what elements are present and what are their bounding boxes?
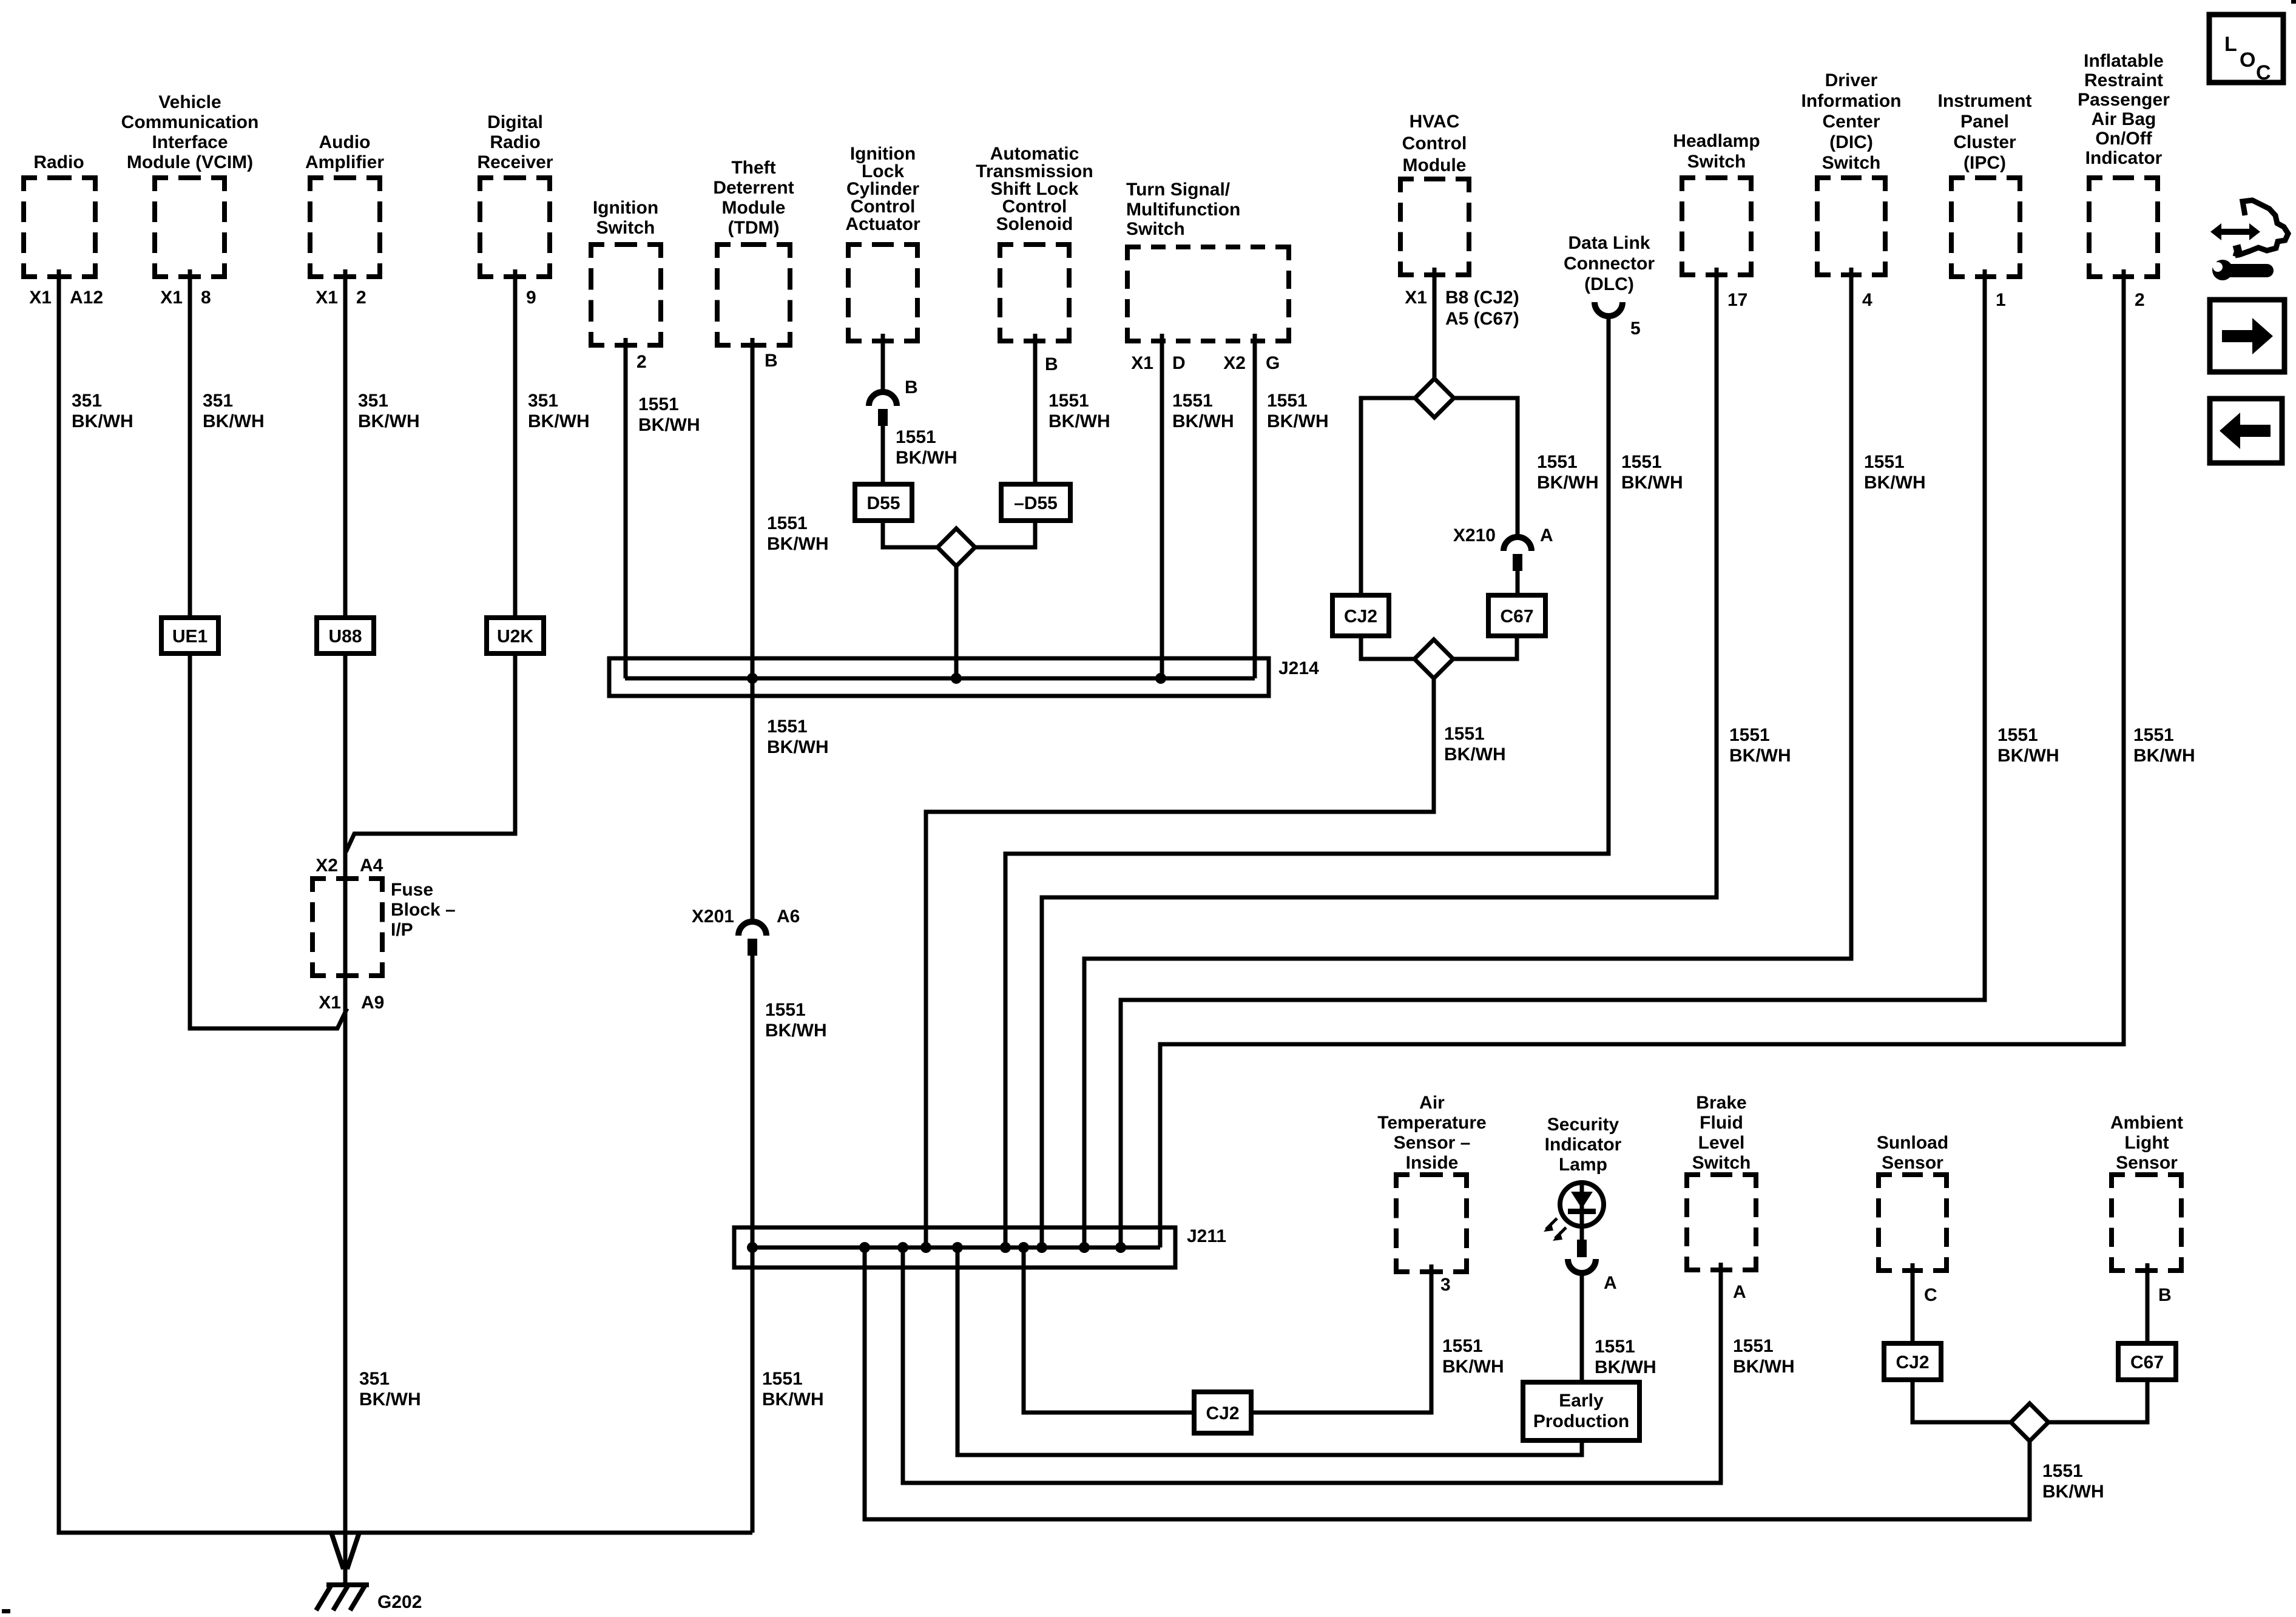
component Air Temperature Sensor - Inside (dashed box) [1377, 1093, 1487, 1272]
svg-text:BK/WH: BK/WH [358, 411, 420, 431]
svg-text:BK/WH: BK/WH [2133, 746, 2195, 766]
wire CJ2 to lower splice diamond [1361, 636, 1414, 659]
svg-text:Amplifier: Amplifier [305, 152, 384, 172]
svg-text:3: 3 [1440, 1275, 1451, 1295]
svg-text:Passenger: Passenger [2078, 90, 2170, 110]
svg-text:BK/WH: BK/WH [1621, 473, 1683, 493]
svg-text:X1: X1 [29, 288, 52, 308]
svg-text:Turn Signal/: Turn Signal/ [1126, 180, 1231, 200]
wire Turn Signal Switch pin D to J214, 1551 BK/WH [1160, 334, 1164, 678]
svg-text:1551: 1551 [2042, 1461, 2083, 1481]
in-line connector X210 pin A [1453, 525, 1553, 571]
svg-text:Theft: Theft [731, 158, 775, 178]
pin label B on TDM [765, 351, 778, 371]
wire Turn Signal Switch pin G to J214, 1551 BK/WH [1253, 334, 1257, 678]
wire actuator pin B to connector [881, 334, 885, 391]
junction dot J214 / TDM wire [747, 673, 758, 684]
wire trunk to ground G202 [343, 1533, 348, 1586]
wire C67 to lower splice diamond [1453, 636, 1517, 659]
pin label 5 on DLC [1630, 319, 1641, 339]
wire label 1551 BK/WH (sunload splice) [2042, 1461, 2104, 1502]
junction dot J211 / headlamp branch [1036, 1242, 1047, 1253]
svg-text:(DIC): (DIC) [1829, 132, 1873, 152]
junction dot J214 / D55 splice wire [951, 673, 962, 684]
svg-text:Security: Security [1547, 1115, 1619, 1135]
wire Early Production box to J211, 1551 BK/WH [957, 1247, 1582, 1455]
svg-text:Audio: Audio [319, 132, 371, 152]
svg-text:8: 8 [201, 288, 211, 308]
wire label 1551 BK/WH (DLC) [1621, 452, 1683, 493]
svg-text:Ambient: Ambient [2110, 1113, 2183, 1133]
component Fuse Block - I/P (dashed box) [312, 879, 456, 976]
svg-text:Radio: Radio [490, 132, 540, 152]
svg-text:Module: Module [1403, 155, 1467, 175]
svg-text:U2K: U2K [497, 627, 533, 647]
svg-text:A: A [1733, 1282, 1746, 1302]
pin label 1 on IPC [1996, 290, 2006, 310]
svg-text:1551: 1551 [1267, 391, 1308, 411]
svg-text:351: 351 [528, 391, 558, 411]
wire Headlamp Switch pin 17 to J211, 1551 BK/WH [1042, 268, 1717, 1247]
svg-text:Early: Early [1559, 1391, 1604, 1411]
in-line connector U88 [317, 618, 374, 653]
splice pack J211 (bus box) [734, 1227, 1175, 1268]
svg-text:BK/WH: BK/WH [1595, 1357, 1656, 1377]
svg-text:A4: A4 [360, 856, 383, 876]
svg-text:Solenoid: Solenoid [996, 214, 1073, 234]
wire CJ2 to sunload splice diamond [1913, 1380, 2011, 1422]
wire X210 to C67 [1516, 569, 1520, 595]
pin label A on Security Indicator Lamp [1604, 1273, 1617, 1293]
svg-text:G: G [1266, 353, 1280, 373]
wire label 351 BK/WH (Digital Radio Receiver) [528, 391, 590, 431]
svg-text:Air Bag: Air Bag [2092, 109, 2156, 129]
svg-text:(DLC): (DLC) [1584, 274, 1634, 294]
wire Sunload Sensor pin C to CJ2 [1911, 1263, 1915, 1343]
svg-text:HVAC: HVAC [1410, 112, 1460, 132]
component Digital Radio Receiver (dashed box) [477, 112, 553, 277]
svg-text:1551: 1551 [767, 513, 808, 533]
svg-text:1551: 1551 [765, 1000, 806, 1020]
svg-text:1551: 1551 [767, 717, 808, 737]
svg-text:Driver: Driver [1825, 70, 1878, 90]
svg-text:351: 351 [72, 391, 102, 411]
svg-text:X2: X2 [316, 856, 338, 876]
svg-text:A9: A9 [361, 993, 384, 1013]
wire label 1551 BK/WH (Headlamp Switch) [1729, 725, 1791, 766]
svg-text:Indicator: Indicator [2085, 148, 2163, 168]
in-line connector C67 (HVAC) [1488, 595, 1545, 636]
component Turn Signal/Multifunction Switch (dashed box) [1126, 180, 1289, 341]
svg-text:BK/WH: BK/WH [638, 415, 700, 435]
wire HVAC lower diamond to J211, 1551 BK/WH [926, 678, 1434, 1247]
label J214 [1278, 658, 1319, 678]
svg-text:X1: X1 [316, 288, 338, 308]
svg-text:Inflatable: Inflatable [2084, 51, 2164, 71]
svg-text:1551: 1551 [1048, 391, 1089, 411]
pin label B on Ambient Light Sensor [2158, 1285, 2172, 1305]
svg-text:BK/WH: BK/WH [896, 448, 957, 468]
svg-text:A: A [1540, 525, 1553, 545]
pin labels X1 / 2 on Audio Amplifier [316, 288, 366, 308]
svg-text:BK/WH: BK/WH [72, 411, 133, 431]
component Ignition Switch (dashed box) [591, 198, 661, 345]
svg-text:1551: 1551 [1733, 1336, 1774, 1356]
svg-text:Control: Control [1402, 133, 1467, 154]
component Theft Deterrent Module (TDM) (dashed box) [713, 158, 794, 345]
pin label 9 on Digital Radio Receiver [526, 288, 536, 308]
svg-text:Block –: Block – [391, 900, 456, 920]
wire -D55 to splice diamond [975, 521, 1035, 547]
wire splice diamond to J214 [954, 566, 959, 678]
component Radio (dashed box) [24, 152, 95, 277]
component Headlamp Switch (dashed box) [1673, 131, 1760, 275]
in-line connector UE1 [161, 618, 218, 653]
svg-text:BK/WH: BK/WH [1444, 744, 1506, 765]
svg-text:17: 17 [1727, 290, 1747, 310]
junction dot J211 / DLC branch [1000, 1242, 1011, 1253]
svg-text:Interface: Interface [152, 132, 228, 152]
svg-text:Vehicle: Vehicle [158, 92, 221, 112]
note box Early Production [1523, 1382, 1639, 1440]
in-line connector CJ2 (HVAC) [1332, 595, 1389, 636]
pin label C on Sunload Sensor [1924, 1285, 1937, 1305]
svg-text:351: 351 [358, 391, 388, 411]
svg-text:B: B [905, 377, 918, 397]
splice diamond (HVAC branch, lower) [1414, 640, 1453, 678]
svg-text:BK/WH: BK/WH [1537, 473, 1599, 493]
svg-text:BK/WH: BK/WH [1729, 746, 1791, 766]
wire solenoid pin B to -D55, 1551 BK/WH [1033, 334, 1038, 484]
svg-text:2: 2 [636, 352, 647, 372]
svg-text:BK/WH: BK/WH [1864, 473, 1926, 493]
svg-text:X210: X210 [1453, 525, 1496, 545]
svg-text:Switch: Switch [1126, 219, 1185, 239]
svg-text:4: 4 [1862, 290, 1872, 310]
svg-text:1551: 1551 [1997, 725, 2038, 745]
junction dot J211 / IPC branch [1115, 1242, 1126, 1253]
wire DLC pin 5 to J211, 1551 BK/WH [1005, 316, 1609, 1247]
wire label 1551 BK/WH (Air Bag Indicator) [2133, 725, 2195, 766]
svg-text:BK/WH: BK/WH [359, 1389, 421, 1409]
svg-text:1551: 1551 [1864, 452, 1905, 472]
component Vehicle Communication Interface Module (VCIM) (dashed box) [121, 92, 259, 277]
wire IPC pin 1 to J211, 1551 BK/WH [1121, 269, 1985, 1247]
junction dot J211 / DIC branch [1079, 1242, 1090, 1253]
pin label B on Shift Lock Solenoid [1045, 354, 1058, 374]
splice diamond (sunload/ambient junction) [2011, 1403, 2048, 1441]
svg-text:B: B [2158, 1285, 2172, 1305]
wire DIC Switch pin 4 to J211, 1551 BK/WH [1084, 268, 1851, 1247]
junction dot J211 / HVAC branch [920, 1242, 931, 1253]
pin labels X2 / A4 on Fuse Block [316, 856, 383, 876]
wire connector to D55, 1551 BK/WH [881, 425, 885, 484]
svg-text:B8 (CJ2): B8 (CJ2) [1445, 288, 1519, 308]
svg-text:D55: D55 [866, 493, 900, 513]
splice diamond (HVAC branch, upper) [1415, 379, 1454, 417]
wire Ignition Switch pin 2 to splice pack J214, 1551 BK/WH [624, 338, 628, 678]
svg-text:1551: 1551 [762, 1369, 803, 1389]
junction dot J211 / TDM/trunk wire [747, 1242, 758, 1253]
wire sunload splice to J211, 1551 BK/WH [865, 1247, 2030, 1519]
svg-text:Actuator: Actuator [845, 214, 920, 234]
wire label 351 BK/WH (Audio Amplifier) [358, 391, 420, 431]
component Sunload Sensor (dashed box) [1877, 1133, 1948, 1271]
junction dot J214 / turn signal D wire [1155, 673, 1166, 684]
svg-text:I/P: I/P [391, 920, 413, 940]
component Instrument Panel Cluster (IPC) (dashed box) [1937, 91, 2031, 277]
wire Air Bag Indicator pin 2 to J211, 1551 BK/WH [1160, 269, 2124, 1247]
wire label 1551 BK/WH (TDM upper) [767, 513, 829, 554]
svg-text:X1: X1 [1131, 353, 1153, 373]
pin label 2 on Air Bag On/Off Indicator [2135, 290, 2145, 310]
wire X201 to splice J211 and ground trunk, 1551 BK/WH [751, 956, 755, 1533]
wire label 1551 BK/WH (above J211) [762, 1369, 824, 1409]
component Inflatable Restraint Passenger Air Bag On/Off Indicator (dashed box) [2078, 51, 2170, 277]
svg-text:2: 2 [2135, 290, 2145, 310]
in-line connector U2K [487, 618, 544, 653]
svg-text:On/Off: On/Off [2095, 129, 2152, 149]
wire label 351 BK/WH (Radio) [72, 391, 133, 431]
svg-text:Light: Light [2124, 1133, 2169, 1153]
wire D55 to splice diamond [883, 521, 937, 547]
svg-text:X2: X2 [1223, 353, 1246, 373]
label G202 [377, 1592, 422, 1612]
svg-text:UE1: UE1 [172, 627, 208, 647]
svg-text:1551: 1551 [1442, 1336, 1483, 1356]
in-line connector (actuator pin B) [869, 392, 897, 426]
light emission arrows of Security Indicator Lamp [1544, 1218, 1566, 1241]
svg-text:BK/WH: BK/WH [765, 1021, 827, 1041]
wire Brake Fluid Level Switch pin A to J211, 1551 BK/WH [903, 1247, 1721, 1483]
svg-text:1551: 1551 [2133, 725, 2174, 745]
svg-text:CJ2: CJ2 [1344, 607, 1377, 627]
svg-text:1551: 1551 [1595, 1337, 1635, 1357]
wire upper diamond right branch to X210 [1454, 398, 1518, 536]
wire upper diamond left branch to CJ2 [1361, 398, 1415, 595]
svg-text:BK/WH: BK/WH [1442, 1357, 1504, 1377]
svg-text:Module (VCIM): Module (VCIM) [127, 152, 253, 172]
in-line connector D55 [855, 484, 912, 521]
wire J211 to CJ2 to Air Temperature Sensor pin 3, 1551 BK/WH [1024, 1247, 1431, 1413]
scan artifact mark bottom-left [2, 1609, 10, 1613]
pin labels X1 D / X2 G on Turn Signal Switch [1131, 353, 1280, 373]
svg-text:Sensor: Sensor [1882, 1153, 1943, 1173]
wire C67 to sunload splice diamond [2048, 1380, 2147, 1422]
svg-text:Multifunction: Multifunction [1126, 200, 1240, 220]
svg-text:Headlamp: Headlamp [1673, 131, 1760, 151]
svg-text:Fluid: Fluid [1700, 1113, 1743, 1133]
wire Audio Amplifier pin 2 down through U88 and Fuse Block to ground, 351 BK/WH [343, 269, 348, 1585]
component Automatic Transmission Shift Lock Control Solenoid (dashed box) [976, 144, 1093, 341]
pin labels X1 / A9 on Fuse Block [319, 993, 384, 1013]
svg-text:BK/WH: BK/WH [1267, 411, 1329, 431]
svg-text:Indicator: Indicator [1545, 1135, 1622, 1155]
svg-text:L: L [2224, 33, 2237, 56]
svg-text:CJ2: CJ2 [1206, 1403, 1239, 1423]
pin labels X1 / A12 on Radio [29, 288, 103, 308]
svg-text:1551: 1551 [1444, 724, 1485, 744]
svg-text:C: C [2256, 61, 2271, 84]
svg-text:Connector: Connector [1564, 254, 1655, 274]
svg-text:1551: 1551 [638, 394, 679, 414]
svg-text:BK/WH: BK/WH [2042, 1482, 2104, 1502]
in-line connector -D55 [1001, 484, 1070, 521]
pin label 17 on Headlamp Switch [1727, 290, 1747, 310]
wire lamp cathode stub and pin [1577, 1226, 1587, 1257]
pin label 2 on Ignition Switch [636, 352, 647, 372]
pin label A on Brake Fluid Level Switch [1733, 1282, 1746, 1302]
svg-text:D: D [1172, 353, 1186, 373]
wire label 351 BK/WH (ground trunk) [359, 1369, 421, 1409]
svg-text:A12: A12 [70, 288, 103, 308]
wire label 1551 BK/WH (HVAC to J211) [1444, 724, 1506, 765]
svg-text:X1: X1 [160, 288, 183, 308]
svg-text:(IPC): (IPC) [1963, 153, 2006, 173]
svg-text:B: B [1045, 354, 1058, 374]
wire TDM pin B down to X201, 1551 BK/WH [751, 338, 755, 921]
in-line connector CJ2 (air temperature circuit) [1194, 1392, 1251, 1433]
svg-text:Panel: Panel [1960, 112, 2009, 132]
svg-text:Production: Production [1533, 1411, 1629, 1431]
svg-text:G202: G202 [377, 1592, 422, 1612]
svg-text:5: 5 [1630, 319, 1641, 339]
svg-text:2: 2 [356, 288, 366, 308]
component Driver Information Center (DIC) Switch (dashed box) [1801, 70, 1902, 275]
wire lamp to Early Production box, 1551 BK/WH [1580, 1272, 1584, 1385]
wire label 1551 BK/WH (Air Temperature Sensor) [1442, 1336, 1504, 1377]
wire label 1551 BK/WH (IPC) [1997, 725, 2059, 766]
splice pack J214 (bus box) [609, 658, 1269, 696]
junction dot J211 / brake fluid branch [897, 1242, 908, 1253]
ground G202 symbol [316, 1585, 369, 1610]
service/adjust hand icon [2207, 200, 2288, 280]
wire label 1551 BK/WH (Ignition Switch) [638, 394, 700, 435]
svg-text:Instrument: Instrument [1937, 91, 2031, 111]
svg-text:Sensor: Sensor [2116, 1153, 2178, 1173]
scan artifact mark top-right [2291, 0, 2296, 4]
svg-text:Restraint: Restraint [2084, 70, 2163, 90]
junction dot J211 / sunload branch [859, 1242, 870, 1253]
svg-text:Radio: Radio [33, 152, 84, 172]
wire label 1551 BK/WH (below X201) [765, 1000, 827, 1041]
in-line connector CJ2 (sunload circuit) [1884, 1343, 1941, 1380]
in-line connector X201 pin A6 [692, 906, 800, 956]
svg-text:A: A [1604, 1273, 1617, 1293]
svg-text:Switch: Switch [1822, 153, 1881, 173]
back arrow box [2210, 399, 2282, 463]
svg-text:Inside: Inside [1406, 1153, 1459, 1173]
svg-text:J211: J211 [1187, 1226, 1226, 1246]
pin label B on Ignition Lock Cylinder Control Actuator [905, 377, 918, 397]
svg-text:BK/WH: BK/WH [528, 411, 590, 431]
svg-text:CJ2: CJ2 [1896, 1352, 1929, 1372]
component Security Indicator Lamp (LED symbol) [1545, 1115, 1622, 1226]
svg-text:1551: 1551 [896, 427, 936, 447]
pin labels X1 / 8 on VCIM [160, 288, 211, 308]
wire label 1551 BK/WH (DIC Switch) [1864, 452, 1926, 493]
svg-text:BK/WH: BK/WH [1048, 411, 1110, 431]
svg-text:Data Link: Data Link [1568, 233, 1650, 253]
component Audio Amplifier (dashed box) [305, 132, 384, 277]
LOC reference box [2209, 15, 2283, 84]
svg-text:A6: A6 [777, 906, 800, 927]
wire label 1551 BK/WH (actuator) [896, 427, 957, 468]
wire HVAC pin to upper splice diamond, 1551 BK/WH [1433, 268, 1437, 379]
svg-text:Receiver: Receiver [477, 152, 553, 172]
component Ignition Lock Cylinder Control Actuator (dashed box) [845, 144, 920, 341]
wire label 1551 BK/WH (Brake Fluid Level Switch) [1733, 1336, 1795, 1377]
svg-text:C: C [1924, 1285, 1937, 1305]
svg-text:1551: 1551 [1537, 452, 1578, 472]
svg-text:BK/WH: BK/WH [762, 1389, 824, 1409]
svg-text:C67: C67 [1500, 607, 1533, 627]
svg-text:Temperature: Temperature [1377, 1113, 1487, 1133]
wire Radio pin A12 to ground trunk, circuit 351 BK/WH [59, 269, 752, 1533]
svg-text:Communication: Communication [121, 112, 259, 132]
svg-text:BK/WH: BK/WH [1997, 746, 2059, 766]
wire label 1551 BK/WH (HVAC right branch) [1537, 452, 1599, 493]
in-line connector (lamp pin A, half connector) [1568, 1259, 1596, 1273]
wire VCIM pin 8 down through UE1 to fuse-block line, 351 BK/WH [190, 269, 347, 1028]
svg-text:A5 (C67): A5 (C67) [1445, 309, 1519, 329]
svg-text:Center: Center [1822, 112, 1880, 132]
svg-text:(TDM): (TDM) [728, 218, 780, 238]
svg-text:Lamp: Lamp [1559, 1155, 1607, 1175]
junction dot J211 / security lamp branch [952, 1242, 963, 1253]
svg-text:Sensor –: Sensor – [1394, 1133, 1471, 1153]
svg-text:BK/WH: BK/WH [1172, 411, 1234, 431]
svg-text:–D55: –D55 [1014, 493, 1058, 513]
svg-text:Cluster: Cluster [1953, 132, 2016, 152]
in-line connector C67 (ambient light circuit) [2118, 1343, 2176, 1380]
svg-text:X1: X1 [319, 993, 341, 1013]
svg-text:X201: X201 [692, 906, 734, 927]
svg-text:J214: J214 [1278, 658, 1319, 678]
wire label 1551 BK/WH (below J214) [767, 717, 829, 757]
svg-text:BK/WH: BK/WH [767, 534, 829, 554]
component Brake Fluid Level Switch (dashed box) [1687, 1093, 1756, 1270]
svg-text:Switch: Switch [1692, 1153, 1751, 1173]
svg-text:1: 1 [1996, 290, 2006, 310]
forward arrow box [2210, 300, 2284, 372]
svg-text:BK/WH: BK/WH [203, 411, 265, 431]
svg-text:BK/WH: BK/WH [767, 737, 829, 757]
svg-text:Digital: Digital [487, 112, 543, 132]
wire inside J211 [752, 1246, 1160, 1250]
wire Digital Radio Receiver pin 9 down through U2K to fuse-block line, 351 BK/WH [346, 269, 515, 852]
ground feed V-junction at trunk [331, 1533, 359, 1569]
svg-text:Switch: Switch [596, 218, 655, 238]
wire label 351 BK/WH (VCIM) [203, 391, 265, 431]
component Data Link Connector (DLC) half-connector symbol [1564, 233, 1655, 316]
wire label 1551 BK/WH (pin G) [1267, 391, 1329, 431]
pin labels X1 / B8 (CJ2) / A5 (C67) on HVAC Control Module [1405, 288, 1519, 329]
svg-text:351: 351 [203, 391, 233, 411]
svg-text:Deterrent: Deterrent [713, 178, 794, 198]
svg-text:B: B [765, 351, 778, 371]
svg-text:9: 9 [526, 288, 536, 308]
wire Ambient Light Sensor pin B to C67 [2146, 1263, 2150, 1343]
pin label 4 on DIC Switch [1862, 290, 1872, 310]
wire label 1551 BK/WH (Security Indicator Lamp) [1595, 1337, 1656, 1377]
wire inside J214 [625, 677, 1255, 681]
junction dot J211 / air temp branch [1018, 1242, 1029, 1253]
label J211 [1187, 1226, 1226, 1246]
svg-text:Module: Module [722, 198, 786, 218]
svg-text:Ignition: Ignition [593, 198, 658, 218]
svg-text:1551: 1551 [1729, 725, 1770, 745]
